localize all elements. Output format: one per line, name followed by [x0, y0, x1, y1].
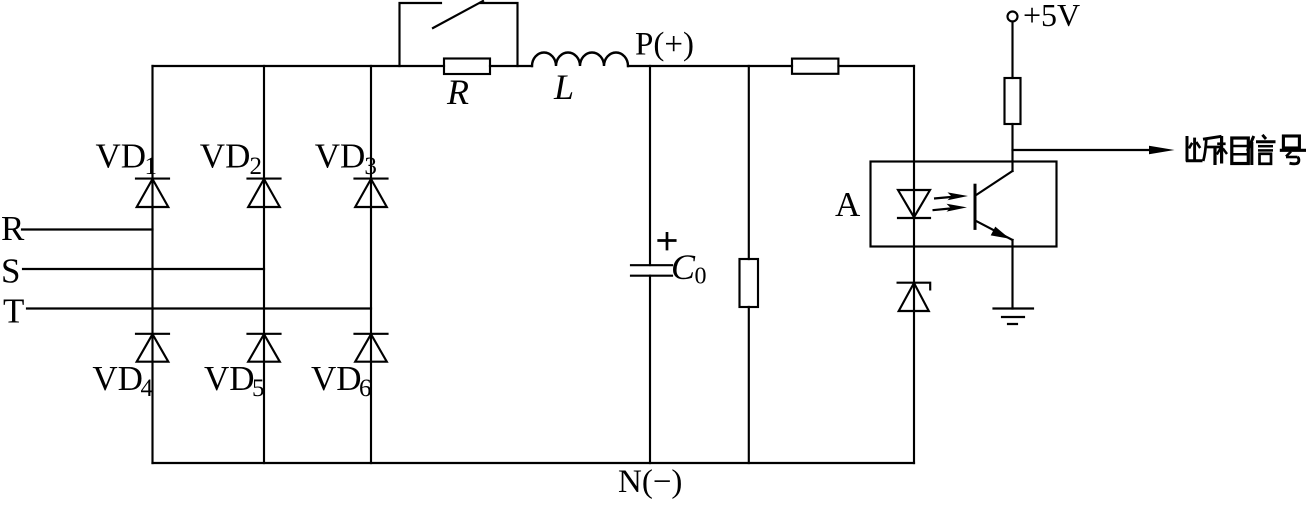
diode VD4: [136, 334, 169, 362]
svg-text:2: 2: [250, 153, 263, 180]
wire: bottom negative bus: [153, 462, 915, 464]
wire: bridge column 3 vertical: [370, 66, 372, 463]
char 信: [1247, 135, 1275, 165]
ground symbol: [994, 309, 1034, 325]
optocoupler A package box: [871, 162, 1057, 247]
char 相: [1217, 136, 1249, 164]
arrowhead: emitter arrow: [991, 227, 1010, 239]
wire: top bus between resistor R and inductor L: [490, 65, 532, 67]
switch blade: [433, 1, 483, 28]
light arrow 1 (LED to transistor): [934, 197, 955, 199]
wire: phase R input: [22, 228, 153, 230]
light arrow 2 (LED to transistor): [933, 208, 955, 210]
diode VD6: [355, 334, 388, 362]
resistor (bleeder) body: [740, 259, 759, 307]
svg-text:C: C: [671, 247, 696, 287]
switch S (bypass contactor contact) loop: [400, 3, 442, 66]
wire: top bus between inductor L and sense resistor: [628, 65, 792, 67]
svg-text:6: 6: [359, 375, 372, 402]
resistor R (charging resistor) body: [444, 59, 490, 75]
wire: emitter down to ground: [1011, 240, 1013, 309]
svg-text:S: S: [1, 252, 20, 291]
svg-text:VD: VD: [311, 359, 362, 398]
svg-text:N(−): N(−): [618, 464, 682, 500]
phototransistor base bar: [974, 185, 977, 228]
wire: LED branch vertical (bus corner down to bottom bus): [913, 66, 915, 463]
diode VD5: [248, 334, 281, 362]
svg-text:VD: VD: [92, 359, 143, 398]
svg-text:0: 0: [695, 264, 707, 290]
diode (protection, below optocoupler) with right tick: [898, 283, 931, 311]
svg-text:+5V: +5V: [1023, 0, 1080, 33]
svg-text:VD: VD: [200, 137, 251, 176]
diode VD2: [248, 179, 281, 207]
+5V terminal circle: [1008, 12, 1018, 22]
svg-text:3: 3: [364, 153, 377, 180]
wire: top positive bus left segment (col1 to resistor R): [153, 65, 445, 67]
arrowhead: output signal arrow: [1149, 146, 1175, 154]
optocoupler LED (triangle down + cathode bar): [898, 190, 930, 218]
label 断相信号 (phase-loss signal, hand-drawn CJK): [1186, 135, 1306, 165]
wire: capacitor C0 branch upper: [649, 66, 651, 265]
char 断: [1186, 136, 1222, 165]
capacitor C0 plates: [631, 265, 672, 276]
svg-text:R: R: [1, 209, 25, 248]
wire: phase S input: [23, 268, 264, 270]
wire: phase T input: [27, 307, 371, 309]
wire: +5V down to pull-up resistor: [1011, 22, 1013, 79]
svg-text:VD: VD: [315, 137, 366, 176]
svg-text:1: 1: [145, 153, 158, 180]
svg-text:P(+): P(+): [635, 27, 694, 63]
svg-text:5: 5: [252, 375, 265, 402]
svg-text:R: R: [446, 72, 469, 112]
svg-text:A: A: [835, 185, 861, 224]
wire: bridge column 2 vertical: [263, 66, 265, 463]
diode VD3: [355, 179, 388, 207]
resistor (sense, on top bus) body: [792, 59, 838, 74]
wire: pull-up resistor to collector: [1011, 124, 1013, 171]
phototransistor collector diagonal: [977, 171, 1013, 195]
svg-text:VD: VD: [204, 359, 255, 398]
phototransistor emitter diagonal: [977, 221, 1013, 240]
resistor (pull-up) body: [1005, 78, 1021, 124]
inductor L (4 humps): [532, 53, 628, 67]
wire: output signal line: [1013, 149, 1153, 151]
wire: capacitor C0 branch lower: [649, 276, 651, 463]
diode VD1: [136, 179, 169, 207]
svg-text:VD: VD: [96, 137, 147, 176]
svg-text:4: 4: [141, 375, 154, 402]
wire: top bus from sense resistor to optocoupler branch corner: [839, 65, 915, 67]
wire: bleeder resistor branch lower: [748, 307, 750, 463]
svg-text:T: T: [3, 292, 24, 331]
capacitor C0 polarity plus sign: [659, 233, 676, 249]
char 号: [1280, 136, 1306, 164]
svg-text:L: L: [553, 67, 574, 107]
wire: bridge column 1 vertical: [151, 66, 153, 463]
wire: bleeder resistor branch upper: [748, 66, 750, 259]
